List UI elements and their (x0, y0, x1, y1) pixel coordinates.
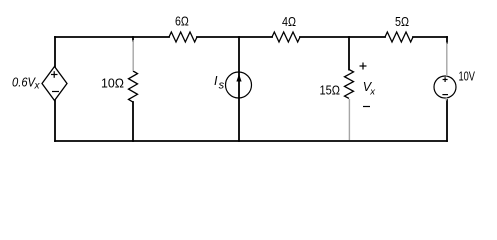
svg-text:4Ω: 4Ω (282, 15, 296, 29)
svg-text:5Ω: 5Ω (395, 15, 409, 29)
svg-text:s: s (219, 80, 225, 92)
svg-text:6Ω: 6Ω (175, 15, 189, 29)
svg-text:10Ω: 10Ω (101, 77, 124, 91)
svg-text:I: I (214, 74, 218, 88)
svg-text:0.6V: 0.6V (12, 75, 36, 89)
svg-text:10V: 10V (459, 70, 476, 84)
svg-text:x: x (34, 81, 41, 92)
svg-text:15Ω: 15Ω (320, 83, 341, 97)
